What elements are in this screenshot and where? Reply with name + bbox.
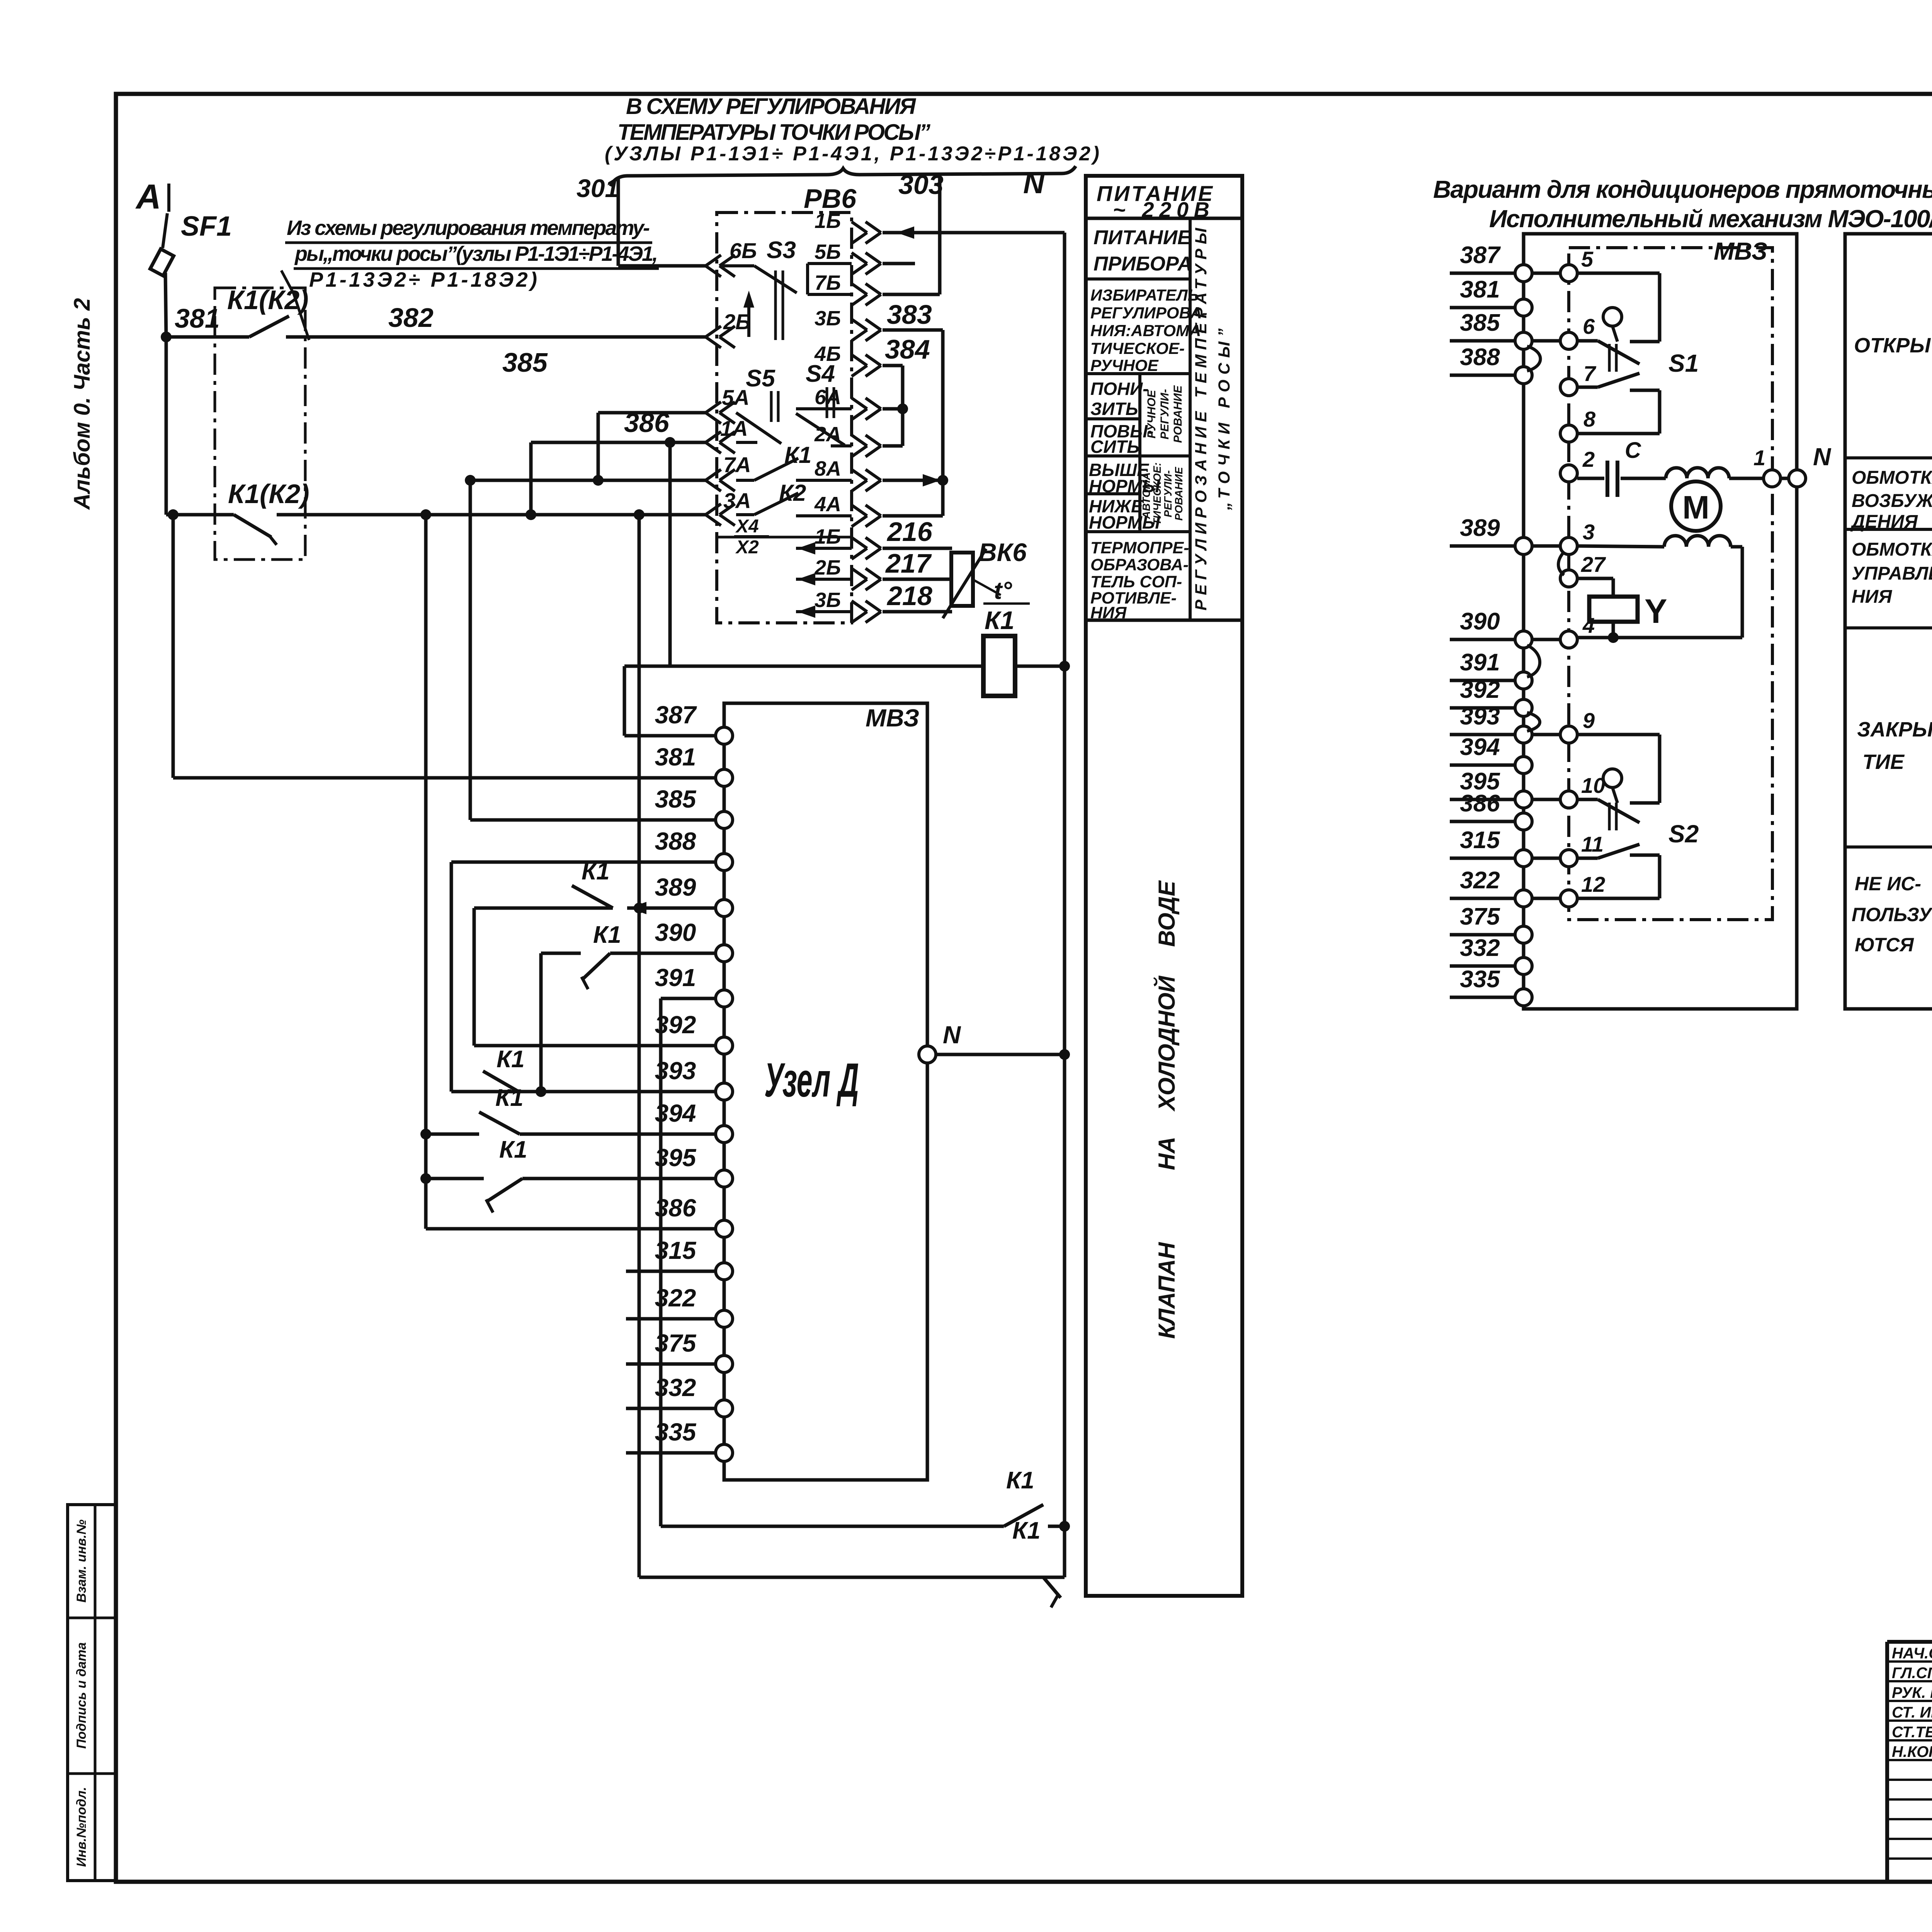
wire 387-5 <box>1532 272 1560 275</box>
wire V to node 385 pin <box>465 475 724 820</box>
wire V 384-6А-2А <box>897 366 908 446</box>
connector pin 2Б <box>706 310 751 348</box>
svg-text:ПОЛЬЗУ-: ПОЛЬЗУ- <box>1852 904 1932 925</box>
svg-text:ТИЧЕСКОЕ-: ТИЧЕСКОЕ- <box>1090 339 1185 357</box>
terminal 393 on Узел Д <box>655 1057 733 1100</box>
svg-text:2Б: 2Б <box>723 310 751 334</box>
svg-text:S3: S3 <box>767 237 796 264</box>
switch S3 <box>721 237 852 340</box>
wire 4А <box>883 514 943 518</box>
wire 315-11 <box>1532 857 1560 860</box>
connector pin 3Б right <box>815 307 881 341</box>
wire 7А feeder <box>470 479 706 482</box>
wire stub 5Б <box>883 262 915 265</box>
left margin stamp column boxes <box>68 1505 116 1881</box>
svg-text:5А: 5А <box>722 385 750 410</box>
terminal 375 МЭО-100 <box>1450 903 1532 943</box>
svg-text:РЕГУЛИ-: РЕГУЛИ- <box>1162 470 1174 517</box>
svg-text:387: 387 <box>1460 242 1501 269</box>
svg-text:К1: К1 <box>497 1046 525 1073</box>
terminal 322 МЭО-100 <box>1450 867 1532 907</box>
terminal N on Узел Д <box>919 1021 1065 1063</box>
wire V 383-8А-4А <box>937 330 948 516</box>
svg-text:ИЗБИРАТЕЛЬ: ИЗБИРАТЕЛЬ <box>1090 286 1199 304</box>
svg-text:УПРАВЛЕ-: УПРАВЛЕ- <box>1852 563 1932 584</box>
wire 6А <box>883 407 903 411</box>
svg-text:385: 385 <box>1460 310 1500 336</box>
pin 4 МВЗ middle <box>1560 613 1595 648</box>
svg-text:315: 315 <box>655 1236 697 1264</box>
rotated label ручное регулирование <box>1145 385 1184 443</box>
svg-text:К1: К1 <box>499 1136 527 1163</box>
wire 322-12 <box>1532 897 1560 900</box>
connector pin 1Б right <box>815 525 881 559</box>
svg-text:388: 388 <box>1460 344 1500 371</box>
wire 385 from connector 5А <box>502 347 706 486</box>
switch S4 <box>796 361 852 446</box>
svg-text:Из схемы регулирования темпера: Из схемы регулирования температу- <box>287 216 650 240</box>
svg-text:390: 390 <box>1460 608 1500 635</box>
wire segment SF1 down to lower contact <box>165 337 168 515</box>
svg-text:322: 322 <box>655 1284 696 1312</box>
wire 386 feeder <box>426 1227 716 1231</box>
stamp label Взам. инв.№ <box>74 1519 89 1602</box>
enclosure dash-dot box around K1(K2) contacts <box>215 288 305 560</box>
svg-text:НА: НА <box>1154 1137 1180 1170</box>
terminal 315 on Узел Д <box>626 1236 733 1280</box>
table Питание 220В <box>1086 176 1242 1596</box>
svg-text:216: 216 <box>886 517 933 547</box>
pin 8 МВЗ middle <box>1560 407 1596 442</box>
svg-text:5Б: 5Б <box>815 240 841 264</box>
pin 5 МВЗ middle <box>1560 247 1594 282</box>
terminal 332 on Узел Д <box>626 1374 733 1417</box>
rotated label автоматическое регулирование <box>1140 463 1185 526</box>
svg-text:Инв.№подл.: Инв.№подл. <box>74 1787 89 1867</box>
svg-text:КЛАПАН: КЛАПАН <box>1154 1242 1180 1338</box>
terminal 335 on Узел Д <box>626 1418 733 1461</box>
device box МВЗ Узел Д <box>724 703 927 1480</box>
connector pin 5А <box>706 385 750 423</box>
wire 303 <box>883 170 944 294</box>
wire 384 <box>883 334 930 366</box>
svg-text:375: 375 <box>655 1329 697 1357</box>
svg-text:Н.КОНТР.: Н.КОНТР. <box>1892 1743 1932 1760</box>
terminal 385 МЭО-100 <box>1450 310 1532 349</box>
node A marker <box>135 178 169 216</box>
svg-text:К1(К2): К1(К2) <box>227 285 309 315</box>
terminal 386 on Узел Д <box>655 1194 733 1237</box>
terminal 387 on Узел Д <box>655 701 733 744</box>
wire to node 387 <box>624 666 724 736</box>
device box МВЗ middle <box>1569 237 1772 920</box>
pin 6 МВЗ middle <box>1560 314 1595 349</box>
switch S1 МЭО-100 <box>1577 273 1699 434</box>
svg-text:381: 381 <box>655 743 696 771</box>
title row Н.КОНТР. <box>1892 1743 1932 1760</box>
svg-text:391: 391 <box>655 964 696 992</box>
svg-text:394: 394 <box>655 1099 696 1127</box>
connector pin 2Б right <box>814 556 881 590</box>
svg-text:393: 393 <box>1460 703 1500 730</box>
svg-text:ПИТАНИЕ: ПИТАНИЕ <box>1094 226 1191 249</box>
connector pin 2А right <box>814 423 881 457</box>
svg-text:394: 394 <box>1460 734 1500 760</box>
terminal 315 МЭО-100 <box>1450 827 1532 867</box>
svg-text:301: 301 <box>577 174 619 202</box>
pin 10 МВЗ middle <box>1560 773 1605 808</box>
svg-text:1А: 1А <box>720 416 748 440</box>
terminal 335 МЭО-100 <box>1450 966 1532 1006</box>
svg-text:11: 11 <box>1581 832 1604 856</box>
svg-text:S2: S2 <box>1668 820 1699 848</box>
terminal 390 МЭО-100 <box>1450 608 1532 648</box>
title block table <box>1887 1642 1932 1882</box>
svg-text:6: 6 <box>1583 314 1595 338</box>
svg-text:АВТОМА-: АВТОМА- <box>1140 469 1152 519</box>
svg-text:Р1-13Э2÷ Р1-18Э2): Р1-13Э2÷ Р1-18Э2) <box>309 268 537 291</box>
connector pin 5Б right <box>815 240 881 274</box>
svg-text:ВК6: ВК6 <box>978 538 1027 566</box>
svg-text:ТИЧЕСКОЕ:: ТИЧЕСКОЕ: <box>1151 463 1163 526</box>
svg-text:ОБРАЗОВА-: ОБРАЗОВА- <box>1090 556 1189 574</box>
svg-text:ОБМОТКА: ОБМОТКА <box>1852 468 1932 488</box>
svg-text:332: 332 <box>1460 935 1500 961</box>
svg-text:ТЕРМОПРЕ-: ТЕРМОПРЕ- <box>1090 539 1189 557</box>
svg-text:ЗАКРЫ-: ЗАКРЫ- <box>1857 718 1932 741</box>
jumper 385-388 <box>1527 346 1541 371</box>
svg-text:К1: К1 <box>582 858 610 885</box>
svg-text:К1: К1 <box>985 606 1014 634</box>
terminal 385 on Узел Д <box>655 785 733 828</box>
svg-text:8А: 8А <box>815 457 841 480</box>
svg-text:2Б: 2Б <box>814 556 841 579</box>
svg-text:НЕ ИС-: НЕ ИС- <box>1855 873 1921 895</box>
wire 8А <box>883 474 943 486</box>
svg-text:РУЧНОЕ: РУЧНОЕ <box>1145 389 1158 438</box>
svg-text:РОВАНИЕ: РОВАНИЕ <box>1172 385 1184 443</box>
svg-text:S1: S1 <box>1668 349 1699 377</box>
svg-text:12: 12 <box>1581 872 1605 896</box>
pin 27 МВЗ middle <box>1560 552 1606 587</box>
svg-text:ОТКРЫТИЕ: ОТКРЫТИЕ <box>1854 334 1932 357</box>
wire to connector 3А <box>277 509 706 520</box>
svg-text:ГЛ.СПЕЦ.: ГЛ.СПЕЦ. <box>1892 1665 1932 1682</box>
wire V from wire2 to bottom contact B <box>634 515 645 1577</box>
svg-text:ПРИБОРА: ПРИБОРА <box>1094 253 1192 275</box>
wire 388 feeder <box>451 862 716 1092</box>
svg-text:СИТЬ: СИТЬ <box>1090 437 1139 457</box>
svg-text:10: 10 <box>1581 773 1605 798</box>
svg-text:392: 392 <box>1460 677 1500 703</box>
internal stubs 216-218 <box>796 542 852 618</box>
terminal 387 МЭО-100 <box>1450 242 1532 282</box>
field winding inductor <box>1666 468 1729 478</box>
svg-text:384: 384 <box>885 334 930 364</box>
left margin rotated label Альбом 0. Часть 2 <box>70 298 95 510</box>
svg-text:4А: 4А <box>814 493 841 516</box>
contact K1(K2) lower <box>166 479 310 545</box>
terminal 394 on Узел Д <box>655 1099 733 1143</box>
wire 385-6 <box>1532 339 1560 343</box>
svg-text:3Б: 3Б <box>815 588 841 612</box>
svg-text:386: 386 <box>1460 790 1500 817</box>
pin 11 МВЗ middle <box>1560 832 1604 867</box>
contact K2 inside РВ6 <box>736 480 852 516</box>
svg-text:1Б: 1Б <box>815 525 841 548</box>
svg-text:Исполнительный механизм МЭО-1: Исполнительный механизм МЭО-100/63-0,63 <box>1489 205 1932 233</box>
wire bus V1 down-left <box>424 515 428 1229</box>
svg-text:МВЗ: МВЗ <box>866 704 919 732</box>
jumper 390-391 <box>1527 645 1540 677</box>
wire 389 with contact K1 <box>474 858 716 914</box>
labels X4 X2 <box>734 516 769 558</box>
subtitle Вариант для кондиционеров <box>1433 175 1932 203</box>
svg-text:389: 389 <box>1460 515 1500 541</box>
svg-text:РЕГУЛИРОВА-: РЕГУЛИРОВА- <box>1090 304 1207 322</box>
terminal 391 МЭО-100 <box>1450 649 1532 689</box>
contact K1 inside РВ6 <box>736 442 852 480</box>
connector pin 7Б right <box>815 271 881 305</box>
svg-text:РУК. ГР.: РУК. ГР. <box>1892 1684 1932 1701</box>
svg-text:3Б: 3Б <box>815 307 841 330</box>
svg-text:335: 335 <box>655 1418 697 1446</box>
control winding inductor <box>1577 536 1742 638</box>
brake solenoid Y <box>1577 578 1667 643</box>
actuator box МЭО-100 outer <box>1524 234 1797 1009</box>
wire 1Б to N bus <box>883 226 1065 239</box>
direction arrow up <box>743 291 754 337</box>
connector pin 1Б right <box>815 209 881 243</box>
wire B with contact K1 to N bus <box>639 1517 1065 1607</box>
wire 391 feeder <box>661 997 716 1000</box>
svg-text:385: 385 <box>655 785 697 813</box>
svg-text:315: 315 <box>1460 827 1500 854</box>
contact K1(K2) upper <box>227 285 309 337</box>
jumper 392-393 <box>1527 713 1540 731</box>
svg-text:Узел Д: Узел Д <box>764 1054 859 1107</box>
wire 381 <box>161 303 249 342</box>
svg-text:395: 395 <box>655 1144 697 1172</box>
svg-text:6Б: 6Б <box>730 238 757 263</box>
stamp label Инв.№ подл. <box>74 1787 89 1867</box>
svg-text:387: 387 <box>655 701 697 729</box>
terminal 395 on Узел Д <box>655 1144 733 1187</box>
node 301 and wire to 6Б <box>577 174 706 266</box>
svg-text:7А: 7А <box>723 452 751 477</box>
node N label top <box>1023 167 1045 200</box>
wire V 389-392 <box>474 908 716 1046</box>
wire 395-10 <box>1532 798 1560 801</box>
svg-text:392: 392 <box>655 1011 696 1039</box>
svg-text:2: 2 <box>1582 447 1595 471</box>
svg-text:t°: t° <box>994 577 1012 604</box>
switch S2 МЭО-100 <box>1577 735 1699 898</box>
svg-text:НИЯ: НИЯ <box>1852 587 1892 607</box>
svg-text:N: N <box>1813 443 1832 471</box>
instrument enclosure РВ6 <box>717 184 857 623</box>
svg-text:ТИЕ: ТИЕ <box>1862 750 1905 774</box>
svg-text:ЗИТЬ: ЗИТЬ <box>1090 399 1138 419</box>
svg-text:К1: К1 <box>1006 1467 1034 1494</box>
leader line from note to wire 382 <box>281 270 309 340</box>
connector pin 8А right <box>815 457 881 491</box>
svg-text:1Б: 1Б <box>815 209 841 233</box>
wire V to node 381 <box>168 509 724 778</box>
svg-text:388: 388 <box>655 827 696 855</box>
svg-text:Подпись и дата: Подпись и дата <box>74 1642 89 1749</box>
svg-text:Х2: Х2 <box>735 537 759 558</box>
wire 386 from connector 1А <box>531 408 706 515</box>
wire 394 with contact K1 <box>420 1085 716 1139</box>
terminal 388 on Узел Д <box>655 827 733 871</box>
svg-text:S4: S4 <box>806 361 835 387</box>
title row СТ. ИНЖ. <box>1892 1704 1932 1721</box>
terminal 322 on Узел Д <box>626 1284 733 1327</box>
svg-text:3: 3 <box>1583 520 1595 544</box>
svg-text:386: 386 <box>655 1194 696 1222</box>
svg-text:ТЕЛЬ СОП-: ТЕЛЬ СОП- <box>1090 573 1182 591</box>
svg-text:ВОДЕ: ВОДЕ <box>1154 880 1180 947</box>
subtitle МЭО-100/63-0,63 <box>1489 205 1932 233</box>
terminal 386 МЭО-100 <box>1450 790 1532 830</box>
terminal 390 on Узел Д <box>655 918 733 962</box>
svg-text:К1: К1 <box>495 1085 524 1111</box>
svg-text:ТЕМПЕРАТУРЫ ТОЧКИ РОСЫ”: ТЕМПЕРАТУРЫ ТОЧКИ РОСЫ” <box>617 120 930 145</box>
terminal 332 МЭО-100 <box>1450 935 1532 975</box>
terminal 381 on Узел Д <box>655 743 733 786</box>
annotation table МЭО-100 <box>1845 234 1932 1009</box>
connector pin 4Б right <box>814 342 881 376</box>
svg-text:1: 1 <box>1753 446 1765 470</box>
connector pin 3А <box>706 488 751 526</box>
terminal 375 on Узел Д <box>626 1329 733 1372</box>
wire 383 <box>883 299 943 330</box>
note Из схемы регулирования температуры точки росы <box>285 216 659 291</box>
wire V to relay K1 coil <box>668 442 672 666</box>
svg-text:N: N <box>1023 167 1045 200</box>
svg-text:218: 218 <box>886 581 932 611</box>
svg-text:381: 381 <box>1460 276 1500 303</box>
svg-text:МВЗ: МВЗ <box>1714 237 1767 265</box>
svg-text:5: 5 <box>1581 247 1594 271</box>
svg-text:390: 390 <box>655 918 696 946</box>
wire 382 <box>286 303 706 337</box>
svg-text:382: 382 <box>388 303 434 333</box>
terminal 381 МЭО-100 <box>1450 276 1532 316</box>
svg-text:ОБМОТКА: ОБМОТКА <box>1852 539 1932 560</box>
svg-text:8: 8 <box>1583 407 1596 431</box>
terminal 393 МЭО-100 <box>1450 703 1532 743</box>
title row РУК. ГР. <box>1892 1683 1932 1701</box>
svg-text:С: С <box>1625 438 1641 463</box>
wire 395 with contact K1 <box>420 1136 716 1213</box>
svg-text:СТ.ТЕХН.: СТ.ТЕХН. <box>1892 1724 1932 1741</box>
wire pin4 <box>1577 636 1742 639</box>
pin 7 МВЗ middle <box>1560 361 1597 396</box>
svg-text:К1(К2): К1(К2) <box>228 479 310 509</box>
svg-text:383: 383 <box>887 299 932 330</box>
wire 390-4 <box>1532 638 1560 641</box>
terminal 394 МЭО-100 <box>1450 734 1532 774</box>
svg-text:27: 27 <box>1581 552 1606 577</box>
svg-text:РУЧНОЕ: РУЧНОЕ <box>1090 356 1159 374</box>
wire 389-3 <box>1532 544 1560 548</box>
pin 12 МВЗ middle <box>1560 872 1605 907</box>
svg-text:7Б: 7Б <box>815 271 841 294</box>
svg-text:М: М <box>1682 489 1709 526</box>
svg-text:Альбом 0. Часть 2: Альбом 0. Часть 2 <box>70 298 95 510</box>
svg-text:К1: К1 <box>1012 1517 1041 1544</box>
svg-text:9: 9 <box>1583 708 1595 733</box>
svg-text:РОВАНИЕ: РОВАНИЕ <box>1173 466 1185 520</box>
svg-text:РЕГУЛИ-: РЕГУЛИ- <box>1158 389 1171 440</box>
wire 217 <box>883 548 952 579</box>
svg-text:322: 322 <box>1460 867 1500 894</box>
svg-text:332: 332 <box>655 1374 696 1401</box>
title row НАЧ.ОТД. <box>1892 1645 1932 1662</box>
svg-text:НАЧ.ОТД.: НАЧ.ОТД. <box>1892 1645 1932 1662</box>
N bus vertical <box>1059 233 1070 1526</box>
svg-text:СТ. ИНЖ.: СТ. ИНЖ. <box>1892 1704 1932 1721</box>
terminal 392 on Узел Д <box>655 1011 733 1054</box>
title row ГЛ.СПЕЦ. <box>1892 1663 1932 1682</box>
wire 218 <box>883 581 952 612</box>
svg-text:Взам. инв.№: Взам. инв.№ <box>74 1519 89 1602</box>
svg-text:ЮТСЯ: ЮТСЯ <box>1855 934 1914 956</box>
pin 1 and node N МЭО-100 <box>1729 443 1832 487</box>
wire 2А <box>883 444 903 448</box>
svg-text:ХОЛОДНОЙ: ХОЛОДНОЙ <box>1153 975 1180 1112</box>
connector pin 6А right <box>815 386 881 420</box>
svg-text:Х4: Х4 <box>735 516 759 537</box>
svg-text:217: 217 <box>885 548 932 578</box>
svg-text:ВОЗБУЖ-: ВОЗБУЖ- <box>1852 491 1932 511</box>
svg-text:386: 386 <box>624 408 670 438</box>
svg-text:391: 391 <box>1460 649 1500 676</box>
connector pin 4А right <box>814 493 881 527</box>
svg-text:381: 381 <box>175 303 220 333</box>
terminal 389 МЭО-100 <box>1450 515 1532 554</box>
wire 216 <box>883 517 952 548</box>
svg-text:ры,,точки росы”(узлы Р1-1Э1÷Р1: ры,,точки росы”(узлы Р1-1Э1÷Р1-4Э1, <box>294 242 658 265</box>
connector pin 7А <box>706 452 751 491</box>
circuit breaker SF1 <box>150 211 232 338</box>
rotated label Клапан на холодной воде left <box>1153 880 1180 1338</box>
svg-text:S5: S5 <box>746 365 776 392</box>
svg-text:SF1: SF1 <box>181 211 232 242</box>
stamp label Подпись и дата <box>74 1642 89 1749</box>
svg-text:335: 335 <box>1460 966 1500 993</box>
svg-text:А: А <box>135 178 161 216</box>
svg-text:Вариант для кондиционеров пря: Вариант для кондиционеров прямоточных ил… <box>1433 175 1932 203</box>
capacitor C МЭО-100 <box>1577 438 1666 497</box>
switch S5 <box>736 365 781 444</box>
wire 393 with contact K1 <box>451 1046 716 1092</box>
connector pin 1А <box>706 416 748 453</box>
svg-text:Y: Y <box>1645 592 1667 630</box>
motor M МЭО-100 <box>1671 481 1721 531</box>
wire A with contact K1 to N bus <box>661 1467 1070 1532</box>
terminal 391 on Узел Д <box>655 964 733 1007</box>
terminal 389 on Узел Д <box>655 873 733 917</box>
svg-text:393: 393 <box>655 1057 696 1085</box>
pin 3 МВЗ middle <box>1560 520 1595 554</box>
svg-text:303: 303 <box>898 170 944 200</box>
svg-text:N: N <box>943 1021 961 1049</box>
svg-text:385: 385 <box>502 347 548 378</box>
svg-text:В СХЕМУ РЕГУЛИРОВАНИЯ: В СХЕМУ РЕГУЛИРОВАНИЯ <box>626 94 917 119</box>
